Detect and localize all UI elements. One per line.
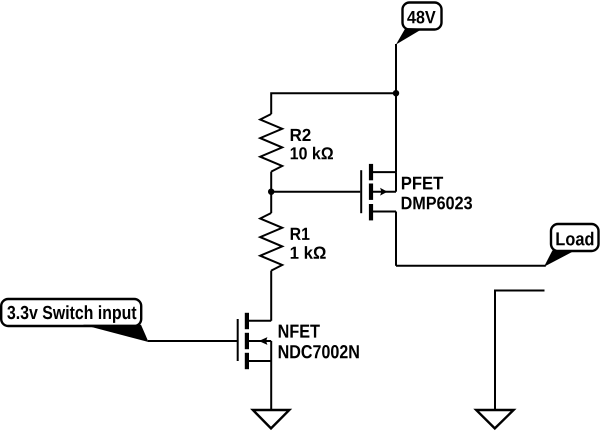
NFET channel dash bottom bbox=[245, 353, 249, 369]
wire: drain to load bbox=[396, 265, 546, 267]
wire: NFET source to ground bbox=[270, 361, 272, 411]
transistor Q2 PFET symbol bbox=[361, 164, 396, 221]
PFET channel dash bottom bbox=[369, 204, 373, 220]
transistor Q1 NFET symbol bbox=[238, 313, 272, 369]
NFET body stub with arrow bbox=[247, 340, 271, 342]
junction dot: gate node bbox=[268, 189, 274, 195]
wire: 48V to top node bbox=[395, 44, 397, 93]
junction dot: top node bbox=[393, 90, 399, 96]
R1 reference label bbox=[291, 228, 310, 240]
NFET body arrow (points left) bbox=[259, 337, 268, 345]
wire: top node to PFET source bbox=[395, 93, 397, 172]
wire: PFET drain down bbox=[395, 212, 397, 266]
ground symbol at load return bbox=[476, 410, 513, 428]
wire: R2 bottom to gate node bbox=[270, 172, 272, 192]
NFET channel dash top bbox=[245, 313, 249, 329]
NFET label bbox=[279, 325, 320, 338]
net label Load text bbox=[556, 232, 593, 246]
resistor R2 zigzag bbox=[260, 114, 282, 172]
PFET label bbox=[402, 177, 443, 190]
PFET part number DMP6023 bbox=[402, 197, 472, 210]
R2 value label 10 kΩ bbox=[291, 147, 333, 160]
PFET channel dash middle bbox=[369, 184, 373, 200]
net label Load pointer bbox=[544, 250, 573, 267]
PFET source-body rail bbox=[395, 172, 397, 192]
wire: R1 bottom to NFET drain bbox=[270, 271, 272, 321]
R2 reference label bbox=[291, 129, 311, 141]
PFET channel dash top bbox=[369, 164, 373, 180]
NFET gate bar bbox=[237, 319, 239, 361]
NFET body-source rail bbox=[270, 341, 272, 361]
PFET body stub bbox=[371, 191, 396, 193]
NFET source stub bbox=[247, 360, 271, 362]
net label 3.3v Switch input box bbox=[1, 299, 141, 326]
net label 3.3v Switch input pointer bbox=[83, 325, 149, 342]
power label 48V box bbox=[403, 3, 442, 30]
PFET drain stub bbox=[371, 211, 396, 213]
wire: switch input to NFET gate bbox=[148, 340, 238, 342]
wire: load return stub and drop bbox=[495, 291, 545, 411]
net label 3.3v Switch input text bbox=[7, 305, 136, 323]
ground symbol at NFET source bbox=[253, 410, 289, 428]
NFET drain stub bbox=[247, 320, 271, 322]
PFET body arrow (points right) bbox=[380, 188, 387, 196]
resistor R1 zigzag bbox=[260, 213, 282, 271]
wire: gate node to R1 top bbox=[270, 192, 272, 213]
NFET part number NDC7002N bbox=[279, 345, 359, 358]
net label Load box bbox=[551, 224, 599, 251]
power label 48V text bbox=[407, 11, 435, 24]
NFET channel dash middle bbox=[245, 333, 249, 349]
R1 value label 1 kΩ bbox=[291, 246, 326, 259]
PFET gate bar bbox=[360, 170, 362, 213]
wire: gate node to PFET gate bbox=[271, 191, 360, 193]
power label 48V pointer bbox=[396, 28, 423, 45]
PFET source stub bbox=[371, 171, 396, 173]
wire: top rail from node to R2 top bbox=[271, 93, 396, 114]
